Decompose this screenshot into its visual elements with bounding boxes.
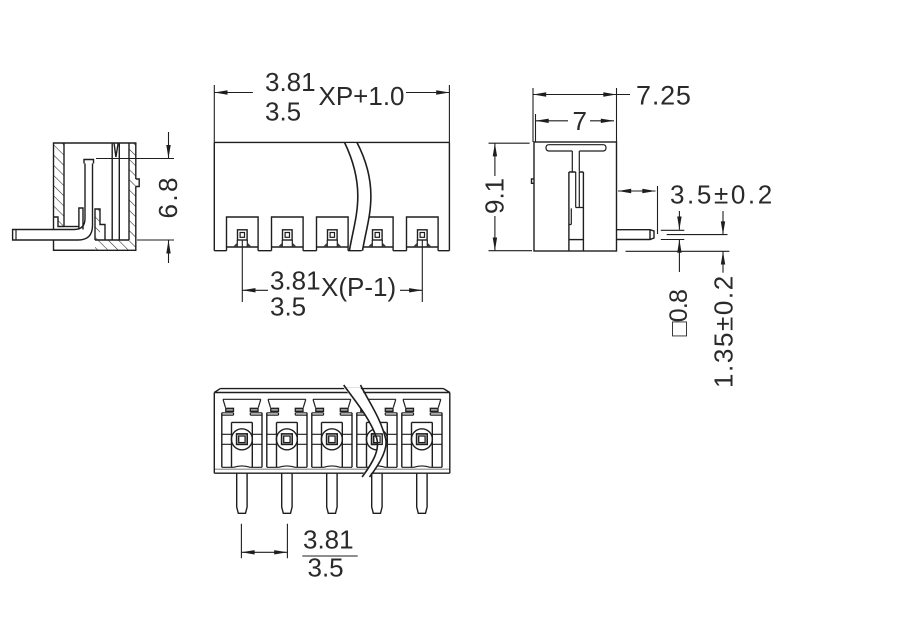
dim X(P-1): dim line left w/ arrow (242, 289, 268, 291)
front view: notch 3 floor (317, 246, 349, 248)
dim 9.1: top extension (489, 142, 530, 144)
bottom view: cell 4 side walls (357, 413, 397, 468)
bottom view: cell 3 tabs (316, 408, 324, 411)
svg-text:3.81: 3.81 (265, 67, 316, 97)
bottom view: cell 4 cage (367, 422, 388, 467)
body bottom edge extended (626, 250, 730, 252)
bottom view: cell 5 cage (412, 422, 433, 467)
left section view: left wall inner edge (63, 143, 65, 227)
left section view: left rib (79, 208, 83, 230)
dim 3.5+-0.2: dim line + arrows (618, 190, 656, 192)
svg-text:3.5: 3.5 (270, 291, 306, 321)
bottom view: cell 5 bottom line with arc (402, 466, 442, 467)
left section view: left wall hatched (54, 143, 65, 227)
bottom view: cell 1 tabs (226, 408, 234, 411)
bottom view: cell 2 cage (277, 422, 298, 467)
dim 9.1: dim line (494, 143, 496, 251)
bottom view: cell 5 under-tab lines (402, 413, 442, 415)
bottom view: pin 1 (237, 473, 247, 513)
front view: notch 2 walls (272, 217, 304, 251)
left section view: outer body outline (54, 143, 136, 250)
front view: notch 4 pedestal (372, 240, 382, 247)
bottom view: cell 5 squares (417, 434, 428, 445)
front view: pin 5 square (418, 230, 428, 240)
bottom view: cell 1 cage (232, 422, 253, 467)
bottom view: cell 1 squares (237, 434, 248, 445)
front view: notch 4 walls (362, 217, 394, 251)
bottom view: cell 4 funnel (358, 399, 396, 407)
dim XP+1.0: dim line left w/ arrow (214, 92, 253, 94)
dim X(P-1): dim line right w/ arrow (400, 289, 422, 291)
front view: notch 5 pedestal (417, 240, 427, 247)
side view: pin tail (617, 230, 655, 240)
dim X(P-1): right extension from pin 5 (421, 241, 423, 303)
left section view: right wall inner edge (128, 143, 130, 240)
left section view: contact pin cap (84, 160, 94, 164)
svg-text:9.1: 9.1 (480, 178, 510, 214)
svg-text:7.25: 7.25 (636, 81, 692, 111)
bottom view: cell 2 band lines (267, 434, 307, 444)
dim pitch: dim line w/ arrows (241, 551, 287, 553)
bottom view: cell 2 side walls (267, 413, 307, 468)
bottom view: cell 3 circle (321, 429, 342, 450)
front view: notch 1 walls (227, 217, 259, 251)
bottom view: cell 2 squares (282, 434, 293, 445)
front view: notch 1 floor (227, 246, 259, 248)
left section view: funnel taper (114, 144, 118, 158)
bottom view: inner bottom edge (214, 468, 449, 470)
dim 9.1: bottom extension (489, 250, 533, 252)
dim 7: dim line (536, 120, 615, 122)
bottom view: cell 3 under-tab lines (312, 413, 352, 415)
front view: break line left (345, 142, 358, 250)
left section view: cavity floor line (64, 226, 79, 228)
bottom view: cell 4 squares (372, 434, 383, 445)
dim pitch: extension lines (241, 524, 287, 558)
bottom view: cell 3 cage (322, 422, 343, 467)
dim 7.25: dim line (533, 94, 630, 96)
bottom view: cell 4 band lines (357, 434, 397, 444)
dim 6.8: extension line bottom (137, 239, 174, 241)
bottom view: cell 5 circle (411, 429, 432, 450)
dim 7.25: left extension (532, 88, 534, 142)
left section view: receptacle channel verticals (112, 143, 119, 240)
bottom view: break line left (344, 385, 378, 477)
bottom view: cell 3 bottom line with arc (312, 466, 352, 467)
bottom view: cell 1 bottom line with arc (222, 466, 262, 467)
left section view: base bottom edge (54, 249, 96, 251)
front view: notch 5 floor (407, 246, 439, 248)
side view: channel bottom line (569, 239, 584, 241)
bottom view: cell 1 under-tab lines (222, 413, 262, 415)
bottom view: cell 2 bottom line with arc (267, 466, 307, 467)
front view: notch 2 floor (272, 246, 304, 248)
side view: contact pin lines (576, 172, 584, 208)
dim XP+1.0: right extension (448, 85, 450, 142)
left section view: right side bump (136, 179, 139, 187)
dim 0.8: lower arrow line (678, 240, 680, 273)
front view: notch 3 pedestal (327, 240, 337, 247)
bottom view: pin 3 (327, 473, 337, 513)
dim 1.35+-0.2: upper arrow line (722, 211, 724, 235)
bottom view: cell 1 funnel (223, 399, 261, 407)
svg-text:3.5: 3.5 (265, 97, 301, 127)
svg-text:6.8: 6.8 (153, 175, 183, 218)
left section view: contact pin with L bend tail (13, 164, 93, 241)
bottom view: break line right (361, 385, 387, 477)
dim 6.8: bottom arrow (168, 240, 170, 263)
bottom view: cell 1 circle (231, 429, 252, 450)
bottom view: cell 1 side walls (222, 413, 262, 468)
side view: body rect (534, 142, 617, 251)
dim X(P-1): left extension from pin 1 (241, 241, 243, 303)
bottom view: outer outline (214, 389, 449, 474)
svg-text:3.5: 3.5 (308, 553, 344, 583)
bottom view: cell 2 tabs (271, 408, 279, 411)
bottom view: cell 4 circle (366, 429, 387, 450)
front view: pin 3 square (328, 230, 338, 240)
front view: pin 1 square (238, 230, 248, 240)
svg-text:1.35±0.2: 1.35±0.2 (709, 274, 739, 388)
bottom view: cell 5 band lines (402, 434, 442, 444)
bottom view: cell 4 bottom line with arc (357, 466, 397, 467)
front view: break band white fill (345, 143, 371, 250)
dim 6.8: extension line top (96, 158, 174, 160)
bottom view: cell 5 side walls (402, 413, 442, 468)
front view: break line right (357, 142, 371, 250)
left section view: molding step outline (95, 209, 105, 240)
bottom view: pin 5 (417, 473, 427, 513)
svg-text:XP+1.0: XP+1.0 (319, 81, 405, 111)
bottom view: cell 2 funnel (268, 399, 306, 407)
dim 7: left extension (535, 114, 537, 142)
left section view: tail end cap (15, 230, 17, 241)
left section view: right wall hatched (95, 143, 139, 250)
bottom view: cell 2 under-tab lines (267, 413, 307, 415)
side view: inner notch (569, 208, 571, 224)
bottom view: cell 4 under-tab lines (357, 413, 397, 415)
side view: T slot (546, 145, 606, 151)
dim 1.35+-0.2: lower arrow line (722, 251, 724, 272)
dim 3.5+-0.2: extension (657, 186, 659, 234)
bottom view: pin 2 (282, 473, 292, 513)
front view: pin 2 square (283, 230, 293, 240)
svg-text:7: 7 (573, 106, 587, 136)
front view: body outline (214, 142, 449, 250)
svg-text:3.5±0.2: 3.5±0.2 (670, 180, 775, 210)
svg-text:3.81: 3.81 (303, 525, 354, 555)
front view: notch 4 floor (362, 246, 394, 248)
side view: contact channel (569, 172, 584, 251)
bottom view: cell 3 band lines (312, 434, 352, 444)
front view: notch 5 walls (407, 217, 439, 251)
bottom view: cell 3 side walls (312, 413, 352, 468)
bottom view: cell 3 funnel (313, 399, 351, 407)
left section view: left wall notch (54, 217, 65, 227)
bottom view: cell 4 squares redraw (372, 434, 383, 445)
bottom view: cell 2 circle (276, 429, 297, 450)
pin centerline extended (667, 234, 728, 236)
bottom view: cell 4 tabs (361, 408, 369, 411)
svg-text:□0.8: □0.8 (665, 290, 693, 337)
side view: left bump (532, 179, 535, 183)
front view: notch 2 pedestal (282, 240, 292, 247)
bottom view: cell 5 tabs (406, 408, 414, 411)
svg-text:X(P-1): X(P-1) (321, 272, 396, 302)
dim XP+1.0: left extension (213, 85, 215, 142)
dim 7.25: right extension (616, 88, 618, 142)
bottom view: cell 1 band lines (222, 434, 262, 444)
dim XP+1.0: dim line right w/ arrow (406, 92, 449, 94)
left section view: bend molding hatched (95, 209, 100, 240)
bottom view: break band white fill (344, 388, 386, 475)
front view: bottom edge tabs (214, 250, 449, 252)
dim 0.8: upper arrow line (678, 211, 680, 230)
front view: notch 1 pedestal (237, 240, 247, 247)
bottom view: cell 3 squares (327, 434, 338, 445)
dim 6.8: top arrow (168, 132, 170, 159)
front view: pin 4 square (373, 230, 383, 240)
left section view: base top line (95, 239, 129, 241)
bottom view: pin 4 (372, 473, 382, 513)
side view: T stem (572, 151, 579, 172)
bottom view: cell 5 funnel (403, 399, 441, 407)
pin break stub lines (661, 230, 685, 239)
front view: notch 3 walls (317, 217, 349, 251)
